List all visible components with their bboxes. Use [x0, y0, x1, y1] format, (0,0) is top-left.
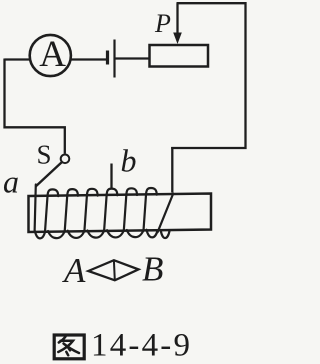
svg-text:14-4-9: 14-4-9: [91, 328, 192, 364]
wire: battery to rheostat: [115, 57, 151, 59]
svg-text:A: A: [62, 251, 86, 290]
switch S blade: [36, 162, 62, 186]
wire: top horizontal from ammeter to battery: [5, 58, 108, 60]
battery B1 short thick plate (negative): [106, 51, 109, 65]
winding lead from a: [35, 185, 36, 232]
wire: down to coil right end: [171, 147, 173, 193]
wire: top right: [171, 3, 245, 148]
rheostat R1 box: [150, 45, 209, 67]
svg-text:B: B: [142, 250, 163, 289]
ammeter A1 circle: [30, 35, 71, 76]
needle center line: [113, 260, 116, 280]
winding turns (front strand + top bump): [45, 189, 58, 231]
svg-text:S: S: [37, 140, 52, 170]
svg-text:a: a: [3, 163, 19, 199]
svg-text:P: P: [154, 9, 171, 38]
wire: node b tap to coil: [110, 164, 112, 190]
compass needle (diamond): [88, 260, 138, 280]
battery B1 long thin plate (positive): [113, 40, 115, 78]
winding bottom dips: [35, 231, 45, 238]
caption hanzi 图 (drawn): [54, 335, 84, 359]
svg-text:b: b: [121, 142, 137, 178]
switch S pivot contact circle: [61, 155, 70, 164]
rheostat R1 slider arrow shaft: [176, 3, 178, 34]
wire: left vertical and down to switch: [5, 59, 65, 154]
rheostat R1 slider arrowhead: [173, 33, 182, 45]
solenoid L1 core box: [29, 194, 212, 233]
solenoid L1 winding: [35, 185, 174, 239]
svg-text:A: A: [39, 34, 66, 75]
